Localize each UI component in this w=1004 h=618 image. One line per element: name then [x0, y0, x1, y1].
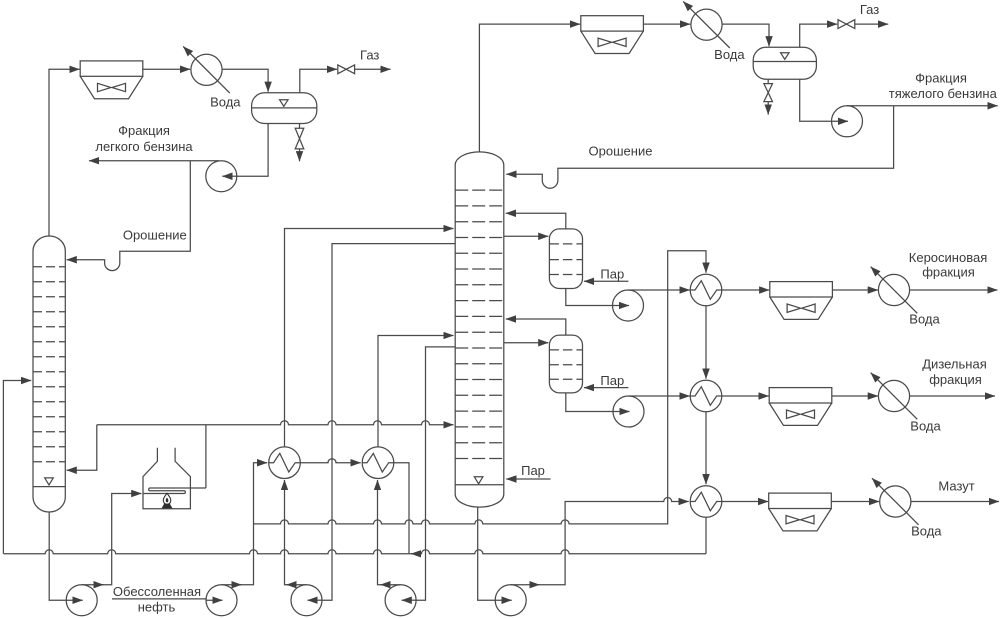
wire K-2 overhead vapor to AC2: [479, 24, 580, 152]
column K-1 (atmospheric topping column): [33, 236, 65, 512]
wire E3 to E4 crude: [705, 306, 707, 379]
wire fuel oil product out: [911, 501, 999, 503]
wire K-1 overhead vapor to AC1: [49, 69, 80, 236]
water cooler WC4: [871, 373, 918, 420]
svg-text:Вода: Вода: [910, 419, 941, 434]
wire E4 to AC4: [722, 395, 769, 397]
wire pump P2 to exchanger E1: [222, 463, 268, 585]
wire crude supply header (upper) to E3: [254, 251, 707, 524]
pump P9 (diesel from stripper S2): [613, 396, 644, 427]
wire stripper S1 vapor return to K-2: [506, 213, 566, 229]
wire flow arrow on P2 discharge: [233, 584, 242, 586]
side stripper S1 (kerosene): [549, 229, 582, 289]
air cooler AC5 (fuel oil): [769, 493, 832, 531]
svg-text:тяжелого бензина: тяжелого бензина: [889, 86, 998, 101]
wire gas product out: [355, 68, 391, 70]
wire stripper S1 bottoms to pump P8: [566, 289, 613, 306]
column K-2 level mark: [474, 477, 483, 484]
wire E3 to AC3: [722, 289, 770, 291]
svg-text:Обессоленная: Обессоленная: [113, 584, 201, 599]
wire AC3 to WC3: [832, 289, 878, 291]
svg-text:Вода: Вода: [911, 524, 942, 539]
air cooler AC1 (K-1 overhead): [80, 61, 143, 99]
air cooler AC4 (diesel): [769, 388, 832, 426]
wire steam to stripper S2: [584, 387, 628, 389]
wire stripper S2 vapor return to K-2: [506, 319, 566, 335]
wire E5 crude down to preheat header: [705, 517, 707, 554]
heat exchanger E4 (crude/diesel): [690, 380, 722, 412]
column K-1 trays: [33, 267, 65, 462]
svg-text:фракция: фракция: [929, 372, 982, 387]
wire K-2 circulating reflux 2 draw to pump P4: [416, 347, 455, 600]
wire pump P1 to furnace F1: [82, 494, 142, 585]
air cooler AC2 (K-2 overhead): [581, 16, 644, 54]
svg-text:Пар: Пар: [521, 463, 545, 478]
column K-2 trays: [455, 190, 504, 458]
pump P2 (desalted crude feed): [206, 585, 237, 616]
svg-text:фракция: фракция: [922, 264, 975, 279]
wire drum D1 gas line to valve V1: [300, 69, 337, 92]
drum D2 level mark: [781, 53, 789, 60]
svg-text:Вода: Вода: [909, 312, 940, 327]
wire drum D2 water drain: [767, 79, 769, 114]
wire reflux to K-2 with seal loop: [506, 106, 893, 188]
wire K-2 draw to stripper S2: [504, 342, 549, 344]
svg-text:Керосиновая: Керосиновая: [909, 250, 987, 265]
valve V3 (drum D1 water drain): [295, 128, 304, 149]
wire flow arrow on P1 discharge: [95, 584, 104, 586]
wire E2 to preheat header: [394, 463, 409, 554]
water cooler WC1: [183, 47, 230, 94]
wire flow arrow on P5 discharge: [531, 584, 540, 586]
wire E1 to E2 crude: [300, 459, 360, 463]
heat exchanger E1 (crude/circulating reflux 1): [269, 447, 301, 479]
pump P3 (circulating reflux 1): [291, 585, 322, 616]
svg-text:Пар: Пар: [600, 373, 624, 388]
wire furnace transfer line riser: [205, 425, 207, 488]
heat exchanger E2 (crude/circulating reflux 2): [362, 447, 394, 479]
wire E4 to E5 crude: [705, 412, 707, 484]
valve V1 (gas line K-1): [338, 65, 355, 74]
wire steam to K-2 bottom: [506, 478, 550, 480]
drum D1 level mark: [280, 100, 288, 107]
water cooler WC5: [872, 478, 919, 525]
svg-text:Вода: Вода: [210, 95, 241, 110]
wire diesel to E4: [629, 395, 690, 397]
pump P1 (K-1 bottoms): [66, 585, 97, 616]
wire kerosene product out: [910, 289, 998, 291]
wire AC4 to WC4: [832, 395, 878, 397]
valve V2 (gas line K-2): [838, 20, 855, 29]
wire drum D1 water drain: [299, 124, 301, 162]
wire flow arrow on P3 discharge: [287, 584, 296, 586]
svg-text:Орошение: Орошение: [589, 144, 653, 159]
wire furnace transfer to K-2 feed: [97, 421, 454, 425]
wire heavy naphtha product line: [847, 105, 998, 107]
wire desalted crude feed to pump P2: [112, 598, 206, 600]
wire drum D1 liquid to pump P6: [237, 124, 268, 177]
stripper S1 trays: [549, 244, 582, 275]
wire crude feed to K-1: [3, 381, 31, 554]
svg-text:Газ: Газ: [860, 2, 879, 17]
wire AC2 to WC2: [643, 23, 690, 25]
reflux drum D2: [753, 47, 816, 79]
air cooler AC3 (kerosene): [770, 282, 833, 320]
water cooler WC3: [871, 267, 918, 314]
wire AC1 to WC1: [143, 68, 190, 70]
svg-text:Вода: Вода: [714, 47, 745, 62]
wire E1 to K-2 circulating reflux 1 return: [285, 229, 454, 447]
wire hot jet return to K-1: [67, 425, 97, 470]
side stripper S2 (diesel): [549, 335, 582, 393]
valve V4 (drum D2 water drain): [764, 84, 773, 102]
svg-text:Мазут: Мазут: [938, 478, 974, 493]
furnace F1 coil: [143, 488, 206, 494]
svg-text:Орошение: Орошение: [123, 228, 187, 243]
pump P7 (heavy naphtha reflux): [832, 106, 863, 137]
wire K-1 bottoms to pump P1: [49, 512, 66, 600]
wire flow arrow on preheat header: [411, 553, 420, 555]
svg-text:легкого бензина: легкого бензина: [95, 139, 193, 154]
wire diesel product out: [910, 395, 995, 397]
wire pump P3 through E1: [285, 480, 307, 585]
wire stripper S2 bottoms to pump P9: [566, 393, 613, 412]
stripper S2 trays: [549, 350, 582, 379]
pump P8 (kerosene from stripper S1): [613, 290, 644, 321]
wire crude preheat header (lower): [3, 550, 706, 554]
svg-text:Фракция: Фракция: [915, 71, 967, 86]
furnace F1 burner flame: [162, 493, 173, 508]
wire reflux to K-1 with seal loop: [67, 161, 191, 271]
wire kerosene to E3: [628, 289, 690, 291]
svg-text:Пар: Пар: [600, 267, 624, 282]
wire drum D2 liquid to pump P7: [800, 79, 832, 121]
furnace F1 body: [143, 448, 190, 509]
pump P6 (light naphtha reflux): [206, 161, 237, 192]
wire gas product out (right): [855, 23, 888, 25]
pump P4 (circulating reflux 2): [385, 585, 416, 616]
wire light naphtha product line: [89, 160, 219, 162]
wire K-2 draw to stripper S1: [504, 235, 549, 237]
wire pump P4 through E2: [378, 480, 401, 585]
wire K-2 bottoms to pump P5: [478, 507, 496, 600]
wire K-2 circulating reflux 1 draw to pump P3: [322, 244, 455, 601]
column K-1 level mark: [45, 478, 54, 485]
wire pump P5 to E5 fuel oil: [511, 498, 689, 585]
wire drum D2 gas line to valve V2: [800, 24, 838, 47]
heat exchanger E3 (crude/kerosene): [690, 274, 722, 306]
wire flow arrow on P4 discharge: [381, 584, 390, 586]
water cooler WC2: [683, 1, 730, 48]
heat exchanger E5 (crude/fuel oil): [690, 486, 722, 518]
pump P5 (K-2 bottoms / fuel oil): [495, 585, 526, 616]
wire WC2 to drum D2: [722, 24, 769, 46]
svg-text:нефть: нефть: [138, 600, 176, 615]
wire steam to stripper S1: [584, 280, 628, 282]
svg-text:Газ: Газ: [360, 48, 379, 63]
wire E5 to AC5: [722, 501, 768, 503]
svg-text:Дизельная: Дизельная: [922, 356, 987, 371]
reflux drum D1: [252, 93, 317, 124]
column K-2 (main atmospheric column): [455, 152, 504, 507]
svg-text:Фракция: Фракция: [118, 123, 170, 138]
wire AC5 to WC5: [831, 501, 879, 503]
wire WC1 to drum D1: [222, 69, 268, 92]
wire E2 to K-2 circulating reflux 2 return: [378, 336, 454, 447]
